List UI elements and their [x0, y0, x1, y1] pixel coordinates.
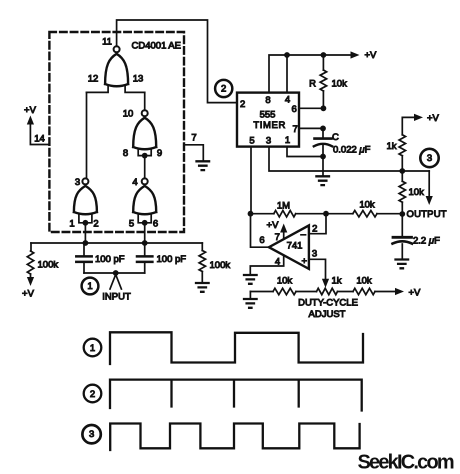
resistor 10k (divider) — [399, 171, 424, 214]
svg-text:0.022 μF: 0.022 μF — [333, 145, 371, 156]
svg-text:DUTY-CYCLE: DUTY-CYCLE — [298, 298, 358, 309]
svg-text:11: 11 — [102, 37, 112, 48]
svg-text:2: 2 — [221, 84, 226, 95]
svg-text:100 pF: 100 pF — [95, 254, 125, 265]
resistor 10k (duty left) — [250, 276, 296, 295]
svg-text:5: 5 — [249, 136, 254, 147]
svg-text:+V: +V — [267, 220, 280, 231]
svg-text:1: 1 — [87, 281, 92, 292]
svg-text:741: 741 — [287, 241, 303, 252]
svg-text:100k: 100k — [210, 260, 231, 271]
resistor 100k (right) to ground — [196, 243, 230, 292]
waveform label circle 1 — [84, 339, 102, 357]
svg-text:1M: 1M — [277, 201, 290, 212]
svg-text:6: 6 — [259, 235, 264, 246]
svg-text:8: 8 — [265, 95, 270, 106]
capacitor 2.2uF — [393, 214, 441, 259]
svg-text:+V: +V — [427, 113, 440, 124]
wire 555 pin 3 output line to node 3 — [269, 147, 429, 172]
wire pin13 to pin10 — [144, 92, 146, 110]
svg-text:CD4001 AE: CD4001 AE — [132, 41, 181, 52]
NOR gate U1a (pins 1,2 -> 3) — [69, 177, 98, 230]
svg-text:R: R — [309, 79, 316, 90]
node 2 circle — [215, 80, 232, 97]
wire 555 pin 1 to C bottom node — [287, 147, 323, 157]
svg-text:6: 6 — [292, 104, 297, 115]
svg-text:12: 12 — [88, 74, 99, 85]
INPUT node wire and arrow — [84, 270, 145, 302]
wire 555 pin 5 down to feedback node and op-amp output — [251, 147, 269, 248]
svg-text:3: 3 — [89, 429, 94, 440]
svg-text:1k: 1k — [332, 276, 342, 287]
svg-text:6: 6 — [153, 219, 158, 230]
svg-text:C: C — [332, 132, 339, 143]
svg-text:9: 9 — [157, 148, 162, 159]
wire 555 pin 7 to C top — [299, 127, 323, 129]
op-amp pin 2 wire to feedback node — [309, 214, 326, 234]
svg-text:2: 2 — [240, 99, 245, 110]
svg-text:10k: 10k — [332, 79, 348, 90]
svg-text:3: 3 — [75, 177, 80, 188]
svg-text:100 pF: 100 pF — [157, 254, 187, 265]
ground under C — [316, 157, 329, 186]
waveform 2 trace — [110, 380, 362, 411]
OUTPUT node — [399, 211, 405, 217]
DUTY-CYCLE ADJUST label — [298, 298, 358, 321]
node 1 circle — [82, 278, 99, 295]
svg-text:7: 7 — [293, 124, 298, 135]
wire pin 11 to 555 pin 2 — [117, 20, 237, 103]
gate C input drop — [144, 223, 146, 243]
wire pins 8,9 to pin 4 output — [144, 156, 146, 179]
svg-text:2: 2 — [93, 219, 98, 230]
svg-text:7: 7 — [191, 133, 196, 144]
svg-text:INPUT: INPUT — [102, 292, 131, 303]
svg-text:10k: 10k — [409, 187, 425, 198]
svg-text:7: 7 — [275, 232, 280, 243]
waveform 1 trace — [110, 332, 363, 364]
svg-text:+V: +V — [409, 287, 422, 298]
svg-text:–: – — [301, 229, 307, 240]
wires 555 pins 8,4 to +V rail — [269, 55, 352, 93]
pin 14 +V supply arrow — [24, 105, 49, 145]
svg-text:5: 5 — [129, 219, 134, 230]
svg-text:13: 13 — [133, 74, 144, 85]
potentiometer 1k — [296, 276, 342, 295]
svg-text:10k: 10k — [277, 276, 293, 287]
svg-text:10k: 10k — [359, 200, 375, 211]
+V arrow (555 supply) — [351, 50, 378, 61]
capacitor C 0.022uF — [314, 128, 371, 156]
svg-text:3: 3 — [427, 153, 432, 164]
junction R top — [321, 52, 327, 58]
junction pin4/rail — [284, 52, 290, 58]
duty-cycle adjust left ground — [244, 292, 257, 308]
+V arrow (duty row) — [395, 287, 421, 298]
svg-text:4: 4 — [285, 95, 290, 106]
waveform label circle 2 — [84, 385, 102, 403]
gate A input drop — [84, 223, 86, 243]
svg-text:+V: +V — [24, 105, 37, 116]
wire pin12 to pin3 — [86, 92, 88, 178]
svg-text:OUTPUT: OUTPUT — [407, 209, 447, 220]
NOR gate U1c (pins 5,6 -> 4) — [129, 177, 158, 230]
svg-text:8: 8 — [123, 148, 128, 159]
pin 7 ground — [184, 133, 209, 171]
ground under 2.2uF — [396, 260, 409, 269]
capacitor 100pF (right) — [137, 243, 186, 273]
resistor 1M feedback — [251, 201, 327, 217]
svg-text:2: 2 — [90, 389, 95, 400]
resistor 10k (duty right) — [338, 276, 396, 295]
wire 555 pin 6 to R bottom — [299, 107, 323, 109]
svg-text:+V: +V — [22, 289, 35, 300]
svg-text:2.2 μF: 2.2 μF — [413, 236, 440, 247]
svg-text:10: 10 — [123, 109, 134, 120]
node 3 circle — [420, 149, 438, 167]
op-amp pin 7 +V arrow — [267, 220, 288, 239]
svg-text:3: 3 — [312, 249, 317, 260]
svg-text:555: 555 — [260, 110, 276, 121]
svg-text:1k: 1k — [387, 141, 397, 152]
svg-text:TIMER: TIMER — [253, 120, 286, 131]
svg-text:1: 1 — [285, 135, 290, 146]
input rail wire — [31, 242, 202, 244]
svg-text:3: 3 — [266, 136, 271, 147]
capacitor 100pF (left) — [76, 243, 124, 273]
arrow down to output — [426, 171, 433, 205]
svg-text:10k: 10k — [356, 276, 372, 287]
op-amp pin 3 wire to 1k wiper — [309, 259, 329, 288]
svg-text:+V: +V — [365, 50, 378, 61]
NOR gate U1b (pins 8,9 -> 10) — [123, 109, 162, 160]
resistor 100k (left) to +V — [22, 243, 58, 300]
resistor 1k pull-up — [387, 113, 440, 171]
waveform label circle 3 — [82, 425, 100, 443]
IC 555 timer box U2 — [237, 93, 299, 147]
svg-text:4: 4 — [132, 177, 137, 188]
svg-text:+: + — [302, 256, 308, 267]
op-amp U3 741 — [259, 224, 317, 269]
resistor 10k (op-amp to output node) — [326, 200, 402, 217]
svg-text:SeekIC.com: SeekIC.com — [358, 452, 454, 474]
IC CD4001AE dashed package outline — [49, 32, 184, 232]
waveform 3 trace — [110, 424, 359, 451]
svg-text:1: 1 — [69, 219, 74, 230]
svg-text:ADJUST: ADJUST — [309, 309, 346, 320]
resistor R 10k — [309, 55, 347, 108]
svg-text:1: 1 — [90, 343, 95, 354]
svg-text:100k: 100k — [38, 260, 59, 271]
NOR gate U1d (pins 12,13 -> 11) — [87, 37, 145, 93]
svg-text:14: 14 — [34, 134, 45, 145]
op-amp pin 4 wire to ground — [244, 255, 284, 284]
